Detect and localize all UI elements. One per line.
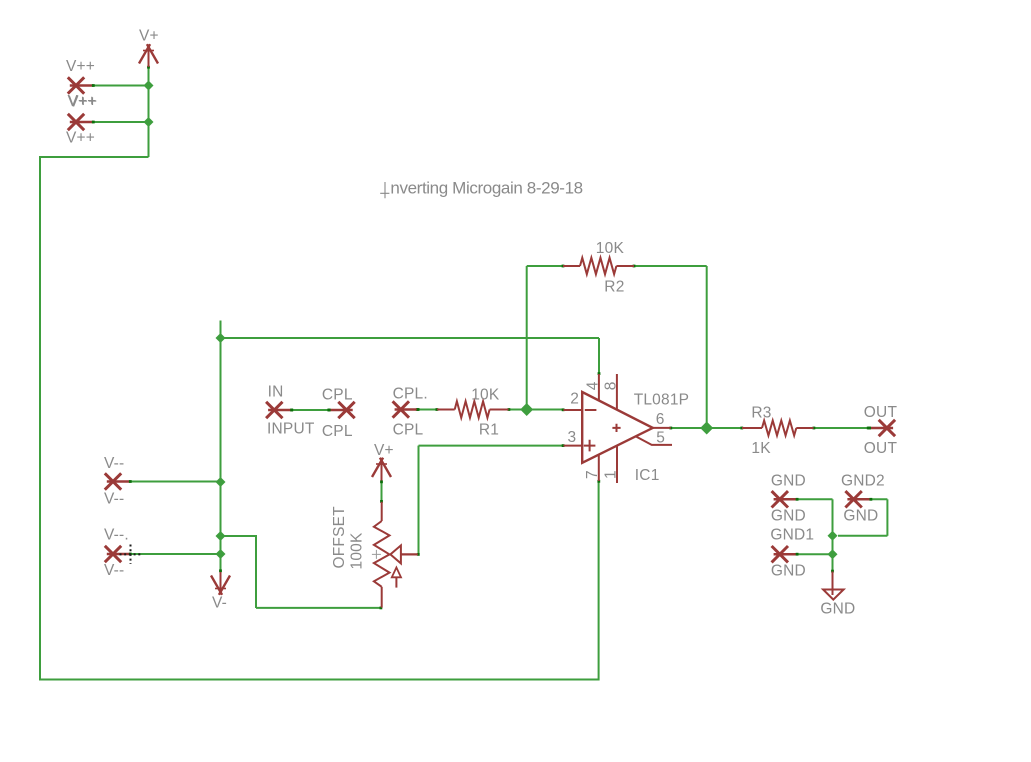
supply pin V++ (2) — [68, 114, 95, 130]
wire V+ rail vertical — [148, 68, 150, 158]
wire V+ rail to left bus — [40, 156, 149, 158]
wire R2 right segment — [635, 265, 707, 267]
power symbol V- — [211, 572, 230, 595]
pin GND1 — [772, 546, 799, 562]
svg-text:V--.: V--. — [104, 527, 129, 544]
pin IN — [266, 402, 293, 418]
wire V-- vertical rail — [220, 321, 222, 571]
svg-text:R3: R3 — [751, 405, 771, 422]
junction V-- rail 2 — [216, 531, 226, 541]
svg-text:OUT: OUT — [864, 440, 898, 457]
wire GND pin to node corner — [797, 498, 833, 500]
op-amp U1 triangle — [582, 392, 653, 463]
wire op-amp pin6 to output node — [671, 427, 707, 429]
svg-text:5: 5 — [656, 429, 665, 446]
pin CPL (left of R1) — [393, 401, 420, 417]
junction GND node lower — [828, 549, 838, 559]
junction V+ rail lower — [144, 117, 154, 127]
junction V-- rail 3 — [216, 549, 226, 559]
wire pot wiper drop — [418, 446, 420, 555]
pin CPL (right of IN) — [328, 402, 355, 418]
wire feedback top rail — [221, 337, 600, 339]
svg-text:GND: GND — [820, 600, 855, 617]
supply pin V-- (2) — [105, 546, 132, 562]
wire op-amp pin7 drop — [598, 482, 600, 681]
junction op-amp output node — [700, 422, 713, 435]
svg-text:6: 6 — [656, 411, 665, 428]
svg-text:CPL: CPL — [322, 423, 353, 440]
op-amp pin 4 lead — [598, 374, 600, 401]
wire V-- pin2 to rail — [131, 553, 221, 555]
wire bottom bus — [39, 679, 599, 681]
wire R3 to OUT pin — [815, 427, 869, 429]
svg-text:100K: 100K — [349, 532, 366, 569]
wire V-- rail to pot (right) — [221, 535, 258, 537]
op-amp pin 6 lead — [653, 427, 671, 429]
svg-text:CPL: CPL — [393, 421, 424, 438]
svg-text:CPL: CPL — [322, 387, 353, 404]
wire left bus vertical — [39, 156, 41, 681]
wire R1 to op-amp pin2 — [510, 409, 564, 411]
svg-text:4: 4 — [585, 381, 602, 390]
ground symbol GND — [823, 572, 844, 600]
op-amp pin 1 lead — [616, 446, 618, 484]
svg-text:GND1: GND1 — [770, 527, 814, 544]
title text cursor — [380, 182, 389, 198]
svg-text:8: 8 — [603, 381, 620, 390]
wire V++ pin2 to V+ rail — [94, 121, 149, 123]
supply pin V-- (1) — [105, 473, 132, 489]
junction feedback rail — [216, 333, 226, 343]
svg-text:1: 1 — [603, 470, 620, 479]
wire CPL pin to R1 — [418, 409, 437, 411]
svg-text:R1: R1 — [479, 421, 499, 438]
resistor R2 10K — [563, 258, 634, 274]
svg-text:V+: V+ — [139, 28, 159, 45]
svg-text:V--: V-- — [104, 491, 124, 508]
svg-text:10K: 10K — [471, 386, 500, 403]
svg-text:GND: GND — [771, 508, 806, 525]
pin GND (top) — [772, 491, 799, 507]
svg-text:3: 3 — [568, 429, 577, 446]
junction V+ rail upper — [144, 81, 154, 91]
wire GND1 pin to node — [797, 553, 833, 555]
junction GND node upper — [828, 531, 838, 541]
power symbol V+ (top left) — [139, 44, 158, 67]
svg-text:INPUT: INPUT — [267, 420, 315, 437]
wire GND node vertical — [832, 499, 834, 571]
wire R2 right drop to output node — [706, 266, 708, 428]
wire IN to CPL link — [292, 409, 329, 411]
op-amp pin 3 lead — [563, 445, 582, 447]
wire R2 left segment — [527, 265, 563, 267]
svg-text:V--: V-- — [104, 562, 124, 579]
svg-text:V++: V++ — [66, 58, 95, 75]
op-amp pin 8 lead — [616, 374, 618, 410]
svg-text:CPL.: CPL. — [393, 385, 428, 402]
potentiometer wiper arrow — [390, 545, 418, 563]
svg-text:OFFSET: OFFSET — [331, 506, 348, 569]
svg-text:IC1: IC1 — [635, 467, 660, 484]
svg-text:V+: V+ — [374, 442, 394, 459]
wire op-amp pin3 — [419, 445, 564, 447]
svg-text:GND: GND — [771, 473, 806, 490]
junction V-- rail 1 — [216, 477, 226, 487]
supply pin V++ (1) — [68, 77, 95, 93]
wire GND2 loop right — [871, 498, 887, 500]
svg-text:2: 2 — [570, 390, 579, 407]
svg-text:GND: GND — [843, 508, 878, 525]
wire V++ pin1 to V+ rail — [94, 85, 149, 87]
svg-text:V-: V- — [212, 595, 227, 612]
svg-text:GND2: GND2 — [841, 473, 885, 490]
op-amp pin 7 lead — [598, 455, 600, 482]
pin GND2 — [845, 491, 872, 507]
junction R1 output node — [520, 403, 533, 416]
op-amp pin 2 lead — [563, 409, 582, 411]
svg-text:7: 7 — [584, 470, 601, 479]
wire output node to R3 — [707, 427, 742, 429]
wire R2 left drop — [526, 266, 528, 410]
svg-text:V--: V-- — [104, 455, 124, 472]
potentiometer OFFSET 100K body — [374, 502, 390, 608]
wire op-amp pin4 stub — [598, 338, 600, 374]
svg-text:IN: IN — [268, 383, 284, 400]
dotted cursor crosshair — [120, 545, 142, 565]
wire V-- pin1 to rail — [131, 481, 221, 483]
wire V-- rail to pot (down) — [255, 536, 257, 608]
op-amp plus marker — [584, 440, 596, 452]
potentiometer trimmer arrow — [392, 568, 401, 588]
svg-text:R2: R2 — [604, 279, 624, 296]
power symbol V+ (above pot) — [372, 458, 391, 481]
wire GND2 loop down — [886, 499, 888, 536]
pin connection dots — [147, 66, 870, 610]
wire GND2 loop to node — [838, 535, 887, 537]
svg-text:V++: V++ — [68, 94, 97, 111]
svg-text:V++: V++ — [66, 130, 95, 147]
op-amp pin 5 lead — [636, 437, 672, 445]
svg-text:OUT: OUT — [864, 404, 898, 421]
pin OUT — [868, 420, 895, 436]
svg-text:GND: GND — [771, 562, 806, 579]
svg-text:10K: 10K — [596, 240, 625, 257]
resistor R3 1K — [742, 421, 814, 436]
resistor R1 10K — [437, 401, 509, 417]
svg-text:nverting Microgain 8-29-18: nverting Microgain 8-29-18 — [390, 179, 582, 198]
svg-text:TL081P: TL081P — [634, 391, 690, 408]
svg-text:1K: 1K — [751, 440, 771, 457]
wire pot V+ stem — [381, 482, 383, 501]
potentiometer origin cross — [372, 550, 381, 559]
op-amp center plus — [612, 424, 620, 432]
wire V-- rail to pot bottom — [256, 607, 381, 609]
op-amp minus marker — [585, 409, 597, 411]
